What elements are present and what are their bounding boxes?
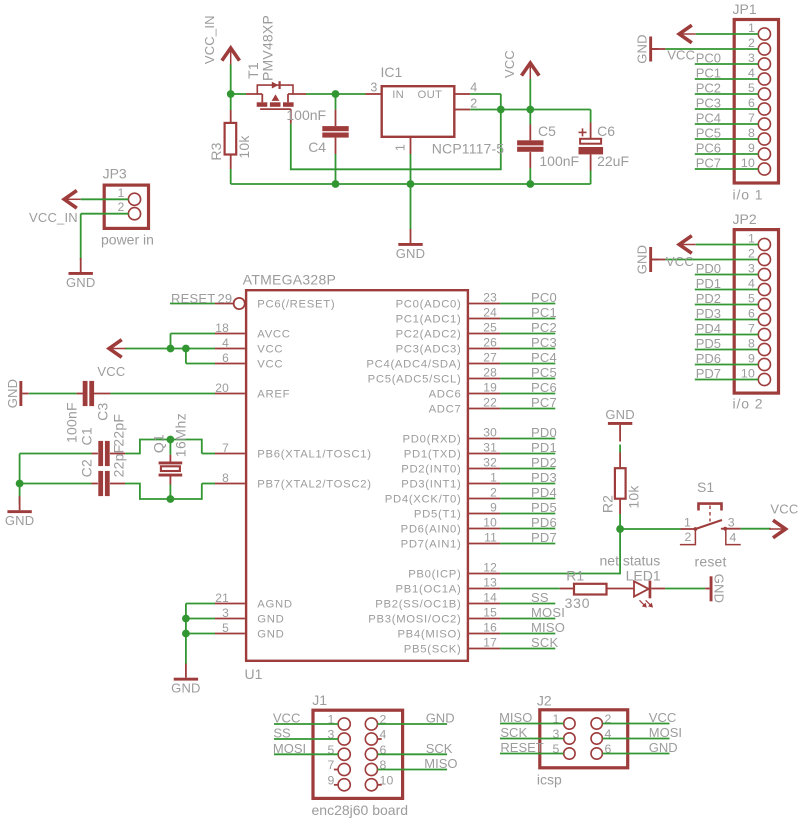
svg-text:6: 6 bbox=[748, 96, 755, 110]
svg-text:PC4: PC4 bbox=[531, 350, 557, 365]
svg-text:PD7(AIN1): PD7(AIN1) bbox=[401, 539, 462, 551]
svg-text:29: 29 bbox=[218, 291, 233, 306]
svg-text:2: 2 bbox=[684, 530, 691, 544]
svg-text:7: 7 bbox=[222, 441, 229, 455]
svg-text:PD6: PD6 bbox=[531, 515, 557, 530]
svg-text:VCC: VCC bbox=[667, 48, 695, 63]
svg-text:GND: GND bbox=[635, 245, 650, 275]
svg-text:PD2: PD2 bbox=[531, 455, 557, 470]
svg-text:PD3(INT1): PD3(INT1) bbox=[401, 479, 461, 491]
svg-text:7: 7 bbox=[748, 111, 755, 125]
svg-text:VCC: VCC bbox=[257, 359, 283, 371]
svg-text:22pF: 22pF bbox=[110, 414, 126, 447]
svg-text:J1: J1 bbox=[312, 692, 327, 708]
svg-text:i/o 1: i/o 1 bbox=[733, 187, 764, 203]
svg-text:ADC7: ADC7 bbox=[429, 404, 462, 416]
svg-text:PC2: PC2 bbox=[696, 81, 721, 96]
svg-text:LED1: LED1 bbox=[626, 568, 661, 584]
svg-text:PC7: PC7 bbox=[531, 395, 557, 410]
svg-text:PD3: PD3 bbox=[531, 470, 557, 485]
svg-text:8: 8 bbox=[222, 471, 229, 485]
svg-text:24: 24 bbox=[483, 306, 497, 320]
svg-text:12: 12 bbox=[483, 561, 497, 575]
svg-text:PD5: PD5 bbox=[531, 500, 557, 515]
svg-text:PC3(ADC3): PC3(ADC3) bbox=[396, 344, 462, 356]
svg-text:23: 23 bbox=[483, 291, 497, 305]
svg-text:C5: C5 bbox=[538, 123, 556, 139]
svg-text:2: 2 bbox=[470, 97, 477, 111]
svg-text:GND: GND bbox=[396, 246, 426, 261]
svg-text:ATMEGA328P: ATMEGA328P bbox=[243, 272, 336, 288]
svg-text:PC0(ADC0): PC0(ADC0) bbox=[396, 299, 462, 311]
svg-text:VCC: VCC bbox=[273, 711, 300, 726]
svg-text:15: 15 bbox=[483, 606, 497, 620]
svg-text:10: 10 bbox=[741, 156, 755, 170]
svg-text:C1: C1 bbox=[79, 427, 95, 445]
svg-text:PD5(T1): PD5(T1) bbox=[414, 509, 462, 521]
svg-text:PD2(INT0): PD2(INT0) bbox=[401, 464, 461, 476]
svg-text:5: 5 bbox=[748, 81, 755, 95]
svg-text:14: 14 bbox=[483, 591, 497, 605]
svg-text:3: 3 bbox=[748, 262, 755, 276]
svg-text:PD1: PD1 bbox=[696, 276, 721, 291]
svg-text:VCC: VCC bbox=[649, 710, 676, 725]
svg-text:SCK: SCK bbox=[426, 741, 453, 756]
svg-text:VCC: VCC bbox=[666, 254, 694, 269]
svg-text:10k: 10k bbox=[626, 485, 642, 509]
svg-text:1: 1 bbox=[117, 186, 124, 200]
svg-text:GND: GND bbox=[5, 513, 35, 528]
svg-text:100nF: 100nF bbox=[64, 402, 80, 443]
svg-text:PB0(ICP): PB0(ICP) bbox=[408, 569, 461, 581]
svg-text:4: 4 bbox=[222, 336, 229, 350]
svg-text:7: 7 bbox=[327, 758, 334, 772]
svg-text:GND: GND bbox=[171, 681, 201, 696]
svg-text:3: 3 bbox=[748, 51, 755, 65]
svg-text:100nF: 100nF bbox=[286, 107, 326, 123]
svg-text:PD1: PD1 bbox=[531, 440, 557, 455]
svg-text:ADC6: ADC6 bbox=[429, 389, 462, 401]
svg-text:PD0: PD0 bbox=[531, 425, 557, 440]
svg-text:GND: GND bbox=[426, 711, 455, 726]
svg-text:30: 30 bbox=[483, 426, 497, 440]
svg-text:10k: 10k bbox=[236, 135, 252, 159]
svg-text:100nF: 100nF bbox=[539, 153, 579, 169]
svg-text:4: 4 bbox=[470, 81, 477, 95]
svg-text:5: 5 bbox=[222, 621, 229, 635]
svg-text:PC3: PC3 bbox=[531, 335, 557, 350]
svg-text:PC1(ADC1): PC1(ADC1) bbox=[396, 314, 462, 326]
svg-text:9: 9 bbox=[748, 352, 755, 366]
svg-text:SS: SS bbox=[273, 726, 291, 741]
svg-text:C6: C6 bbox=[597, 123, 615, 139]
svg-text:PC0: PC0 bbox=[531, 290, 557, 305]
svg-text:GND: GND bbox=[649, 740, 678, 755]
svg-text:1: 1 bbox=[490, 471, 497, 485]
svg-text:MOSI: MOSI bbox=[531, 605, 565, 620]
svg-text:AGND: AGND bbox=[257, 599, 292, 611]
svg-text:9: 9 bbox=[327, 773, 334, 787]
svg-text:22pF: 22pF bbox=[110, 445, 126, 478]
svg-text:2: 2 bbox=[748, 247, 755, 261]
svg-text:1: 1 bbox=[684, 516, 691, 530]
svg-text:MISO: MISO bbox=[424, 756, 457, 771]
svg-text:3: 3 bbox=[728, 516, 735, 530]
svg-text:PC4(ADC4/SDA): PC4(ADC4/SDA) bbox=[366, 359, 461, 371]
svg-text:PB2(SS/OC1B): PB2(SS/OC1B) bbox=[375, 599, 461, 611]
svg-text:VCC_IN: VCC_IN bbox=[29, 210, 78, 225]
svg-text:17: 17 bbox=[483, 636, 497, 650]
svg-text:i/o 2: i/o 2 bbox=[733, 396, 764, 412]
svg-text:27: 27 bbox=[483, 351, 497, 365]
svg-text:20: 20 bbox=[215, 381, 229, 395]
svg-text:C2: C2 bbox=[79, 459, 95, 477]
svg-text:PD4(XCK/T0): PD4(XCK/T0) bbox=[385, 494, 462, 506]
svg-text:OUT: OUT bbox=[418, 89, 443, 101]
svg-text:31: 31 bbox=[483, 441, 497, 455]
svg-text:PC6(/RESET): PC6(/RESET) bbox=[257, 299, 335, 311]
svg-text:8: 8 bbox=[748, 337, 755, 351]
svg-text:PD7: PD7 bbox=[696, 366, 721, 381]
svg-text:11: 11 bbox=[484, 531, 497, 545]
svg-text:net status: net status bbox=[600, 553, 661, 569]
svg-text:PB5(SCK): PB5(SCK) bbox=[404, 644, 462, 656]
svg-text:MISO: MISO bbox=[499, 710, 532, 725]
svg-text:VCC: VCC bbox=[257, 344, 283, 356]
svg-text:PB3(MOSI/OC2): PB3(MOSI/OC2) bbox=[368, 614, 461, 626]
svg-text:2: 2 bbox=[748, 36, 755, 50]
svg-text:PD4: PD4 bbox=[531, 485, 557, 500]
svg-text:C4: C4 bbox=[308, 139, 326, 155]
svg-text:PD0: PD0 bbox=[696, 261, 721, 276]
svg-text:GND: GND bbox=[66, 275, 96, 290]
svg-text:R3: R3 bbox=[208, 142, 224, 160]
svg-text:PD3: PD3 bbox=[696, 306, 721, 321]
svg-text:22: 22 bbox=[483, 396, 497, 410]
svg-text:PD2: PD2 bbox=[696, 291, 721, 306]
svg-text:U1: U1 bbox=[245, 666, 263, 682]
svg-text:1: 1 bbox=[748, 21, 755, 35]
svg-text:2: 2 bbox=[490, 486, 497, 500]
svg-text:VCC: VCC bbox=[502, 50, 517, 78]
svg-text:enc28j60 board: enc28j60 board bbox=[312, 802, 409, 818]
svg-text:16: 16 bbox=[483, 621, 497, 635]
svg-text:330: 330 bbox=[565, 595, 591, 611]
svg-text:GND: GND bbox=[257, 629, 284, 641]
svg-text:6: 6 bbox=[748, 307, 755, 321]
svg-text:PC5(ADC5/SCL): PC5(ADC5/SCL) bbox=[368, 374, 462, 386]
svg-text:MOSI: MOSI bbox=[649, 725, 682, 740]
svg-text:22uF: 22uF bbox=[597, 153, 629, 169]
svg-text:PD6: PD6 bbox=[696, 351, 721, 366]
svg-text:PD4: PD4 bbox=[696, 321, 721, 336]
svg-text:AREF: AREF bbox=[257, 389, 290, 401]
svg-text:25: 25 bbox=[483, 321, 497, 335]
svg-text:NCP1117-5: NCP1117-5 bbox=[432, 141, 504, 157]
svg-text:7: 7 bbox=[748, 322, 755, 336]
svg-text:GND: GND bbox=[5, 379, 20, 409]
svg-text:21: 21 bbox=[215, 591, 229, 605]
svg-text:PC1: PC1 bbox=[531, 305, 557, 320]
svg-text:JP3: JP3 bbox=[103, 166, 127, 182]
svg-text:R2: R2 bbox=[600, 495, 616, 513]
svg-text:PB7(XTAL2/TOSC2): PB7(XTAL2/TOSC2) bbox=[257, 479, 371, 491]
svg-text:4: 4 bbox=[748, 277, 755, 291]
svg-text:Q1: Q1 bbox=[151, 434, 167, 453]
svg-text:8: 8 bbox=[748, 126, 755, 140]
svg-text:PMV48XP: PMV48XP bbox=[260, 15, 276, 81]
svg-text:J2: J2 bbox=[537, 693, 552, 709]
svg-text:9: 9 bbox=[748, 141, 755, 155]
svg-text:JP1: JP1 bbox=[733, 1, 757, 17]
svg-text:S1: S1 bbox=[697, 479, 714, 495]
svg-text:26: 26 bbox=[483, 336, 497, 350]
svg-text:PD0(RXD): PD0(RXD) bbox=[403, 434, 462, 446]
svg-text:PC7: PC7 bbox=[696, 156, 721, 171]
svg-text:PC5: PC5 bbox=[531, 365, 557, 380]
svg-text:GND: GND bbox=[605, 407, 635, 422]
svg-text:3: 3 bbox=[222, 606, 229, 620]
svg-text:reset: reset bbox=[695, 554, 727, 570]
svg-text:PC5: PC5 bbox=[696, 126, 721, 141]
svg-text:R1: R1 bbox=[566, 568, 584, 584]
svg-text:VCC: VCC bbox=[770, 502, 798, 517]
svg-text:PC1: PC1 bbox=[696, 66, 721, 81]
svg-text:PC6: PC6 bbox=[696, 141, 721, 156]
svg-text:PC2: PC2 bbox=[531, 320, 557, 335]
svg-text:PC4: PC4 bbox=[696, 111, 721, 126]
svg-text:4: 4 bbox=[748, 66, 755, 80]
svg-text:PD7: PD7 bbox=[531, 530, 557, 545]
svg-text:2: 2 bbox=[117, 200, 124, 214]
svg-text:IC1: IC1 bbox=[381, 64, 403, 80]
svg-text:AVCC: AVCC bbox=[257, 329, 290, 341]
svg-text:PC0: PC0 bbox=[696, 51, 721, 66]
svg-text:PB6(XTAL1/TOSC1): PB6(XTAL1/TOSC1) bbox=[257, 449, 371, 461]
svg-text:32: 32 bbox=[483, 456, 497, 470]
svg-text:C3: C3 bbox=[95, 403, 111, 421]
svg-text:VCC_IN: VCC_IN bbox=[202, 15, 217, 64]
svg-text:power in: power in bbox=[101, 232, 154, 248]
svg-text:PB4(MISO): PB4(MISO) bbox=[397, 629, 461, 641]
svg-text:6: 6 bbox=[222, 351, 229, 365]
svg-text:PD1(TXD): PD1(TXD) bbox=[404, 449, 462, 461]
svg-text:5: 5 bbox=[748, 292, 755, 306]
svg-text:VCC: VCC bbox=[97, 364, 125, 379]
svg-text:PC2(ADC2): PC2(ADC2) bbox=[396, 329, 462, 341]
svg-text:28: 28 bbox=[483, 366, 497, 380]
svg-text:MISO: MISO bbox=[531, 620, 565, 635]
svg-text:PC3: PC3 bbox=[696, 96, 721, 111]
svg-text:PD6(AIN0): PD6(AIN0) bbox=[401, 524, 462, 536]
svg-text:1: 1 bbox=[748, 232, 755, 246]
svg-text:4: 4 bbox=[730, 531, 737, 545]
svg-text:GND: GND bbox=[257, 614, 284, 626]
svg-text:PB1(OC1A): PB1(OC1A) bbox=[396, 584, 462, 596]
svg-text:MOSI: MOSI bbox=[273, 741, 306, 756]
svg-text:13: 13 bbox=[483, 576, 497, 590]
svg-text:10: 10 bbox=[741, 367, 755, 381]
svg-text:icsp: icsp bbox=[537, 772, 562, 788]
svg-text:9: 9 bbox=[490, 501, 497, 515]
svg-text:SCK: SCK bbox=[500, 725, 527, 740]
svg-text:PC6: PC6 bbox=[531, 380, 557, 395]
svg-text:RESET: RESET bbox=[171, 291, 215, 306]
svg-text:3: 3 bbox=[370, 81, 377, 95]
svg-text:SCK: SCK bbox=[531, 635, 558, 650]
svg-text:19: 19 bbox=[483, 381, 497, 395]
svg-text:SS: SS bbox=[531, 590, 549, 605]
svg-text:18: 18 bbox=[215, 321, 229, 335]
svg-text:10: 10 bbox=[483, 516, 497, 530]
svg-text:IN: IN bbox=[392, 89, 404, 101]
svg-text:1: 1 bbox=[394, 144, 408, 151]
svg-text:PD5: PD5 bbox=[696, 336, 721, 351]
svg-text:JP2: JP2 bbox=[733, 211, 757, 227]
svg-text:GND: GND bbox=[635, 34, 650, 64]
svg-text:GND: GND bbox=[712, 574, 727, 604]
svg-text:16Mhz: 16Mhz bbox=[173, 413, 189, 458]
svg-text:RESET: RESET bbox=[500, 740, 543, 755]
